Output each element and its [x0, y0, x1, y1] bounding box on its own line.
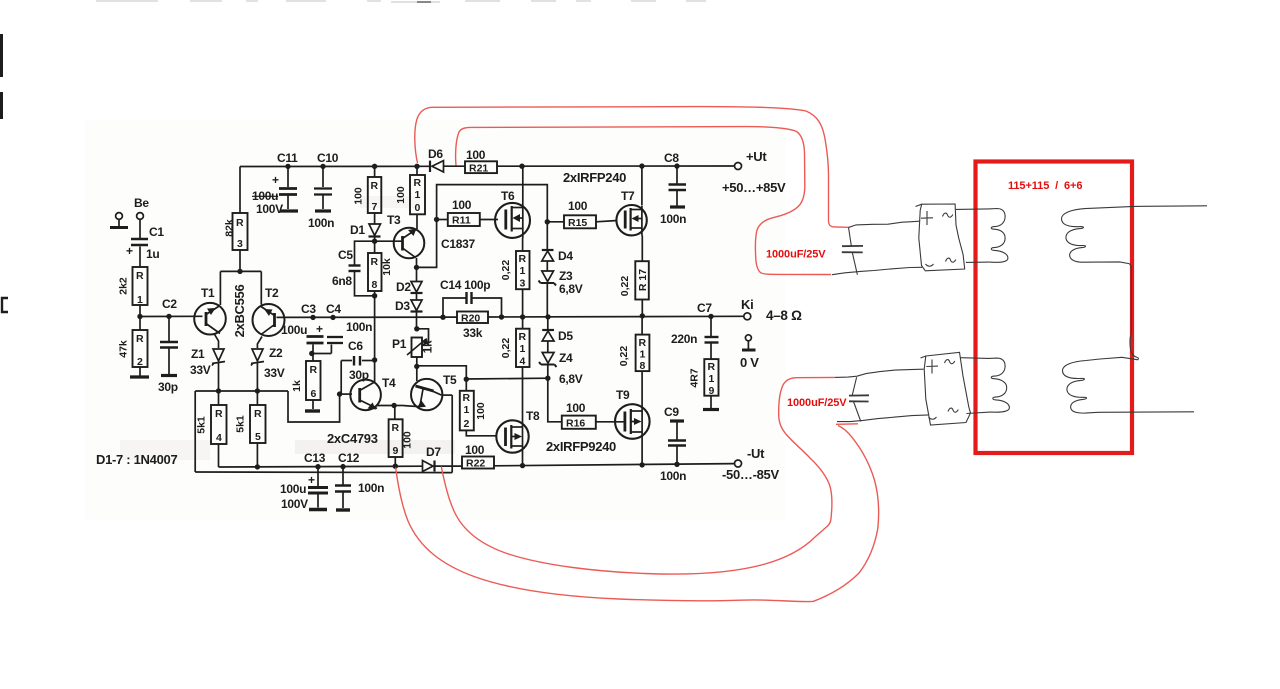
- svg-text:100u: 100u: [252, 189, 278, 203]
- resistor R5: [235, 405, 266, 443]
- wire collector row y391: [195, 390, 288, 392]
- wire frame bottom y472: [195, 471, 452, 474]
- svg-text:C12: C12: [338, 451, 360, 465]
- node T2 collector R5: [255, 388, 260, 393]
- node R17 R18 rail: [640, 313, 645, 318]
- transistor T2: [253, 304, 285, 336]
- wire R10 column: [416, 166, 418, 175]
- node C9 rail: [674, 462, 679, 467]
- svg-text:T2: T2: [265, 286, 279, 300]
- svg-text:-Ut: -Ut: [747, 446, 765, 461]
- capacitor upper 1000uF: [842, 245, 863, 247]
- resistor R14: [500, 329, 530, 368]
- svg-text:2xC4793: 2xC4793: [327, 431, 378, 446]
- svg-text:6,8V: 6,8V: [559, 282, 583, 296]
- svg-text:T8: T8: [526, 409, 540, 423]
- svg-text:+: +: [316, 322, 323, 336]
- wire secondary link hook: [1130, 337, 1138, 360]
- mosfet T7: [616, 205, 646, 236]
- svg-text:0,22: 0,22: [618, 346, 630, 367]
- terminal -Ut: [735, 460, 742, 467]
- svg-text:100: 100: [566, 401, 586, 415]
- svg-text:Z2: Z2: [269, 346, 283, 360]
- svg-text:R21: R21: [469, 162, 488, 174]
- wire upper AC bottom: [966, 261, 989, 263]
- svg-text:T7: T7: [621, 189, 635, 203]
- svg-text:C8: C8: [664, 151, 679, 165]
- wire C5 branch: [355, 241, 375, 264]
- svg-text:4: 4: [216, 432, 222, 444]
- svg-text:100n: 100n: [308, 216, 334, 230]
- svg-text:Ki: Ki: [741, 297, 753, 312]
- svg-text:1: 1: [464, 404, 470, 416]
- svg-text:R: R: [708, 361, 716, 373]
- wire T8 drain column: [522, 367, 524, 421]
- wire T5 collector: [442, 394, 453, 396]
- wire top supply rail: [240, 165, 429, 167]
- svg-text:1k: 1k: [421, 340, 435, 353]
- wire P1 wiper: [417, 329, 429, 345]
- svg-text:8: 8: [372, 279, 378, 291]
- capacitor C11: [287, 166, 289, 187]
- winding upper secondary: [1061, 206, 1134, 337]
- wire R17 column: [641, 236, 643, 262]
- svg-text:R: R: [371, 256, 379, 268]
- svg-text:C7: C7: [697, 301, 712, 315]
- node C12 rail: [340, 464, 345, 469]
- diode D2: [411, 282, 422, 293]
- diode D6: [432, 161, 444, 172]
- capacitor C9: [670, 419, 684, 422]
- svg-text:C4: C4: [326, 302, 341, 316]
- svg-text:R: R: [392, 422, 400, 434]
- svg-text:D1-7 : 1N4007: D1-7 : 1N4007: [96, 452, 177, 467]
- node P1 top: [414, 326, 419, 331]
- svg-text:Z3: Z3: [559, 269, 573, 283]
- svg-text:220n: 220n: [671, 332, 697, 346]
- capacitor C2: [160, 342, 178, 348]
- wire mid rail left: [140, 315, 203, 317]
- node T4 T5 emitters: [391, 403, 396, 408]
- node Z3 rail: [545, 314, 550, 319]
- rectifier bridge upper: [919, 204, 965, 271]
- svg-text:100: 100: [465, 443, 485, 457]
- svg-text:R11: R11: [452, 215, 471, 227]
- svg-text:C9: C9: [664, 405, 679, 419]
- wire upper AC top: [956, 208, 989, 211]
- node R10 D6 rail: [414, 164, 419, 169]
- svg-text:1u: 1u: [146, 247, 159, 261]
- svg-text:100: 100: [466, 148, 486, 162]
- winding lower secondary: [1062, 357, 1138, 413]
- wire lower cap top lead: [835, 369, 924, 377]
- svg-text:T9: T9: [616, 388, 630, 402]
- svg-text:D6: D6: [428, 147, 443, 161]
- svg-text:T4: T4: [382, 376, 396, 390]
- svg-text:R: R: [463, 392, 471, 404]
- wire R15 branch: [547, 221, 564, 223]
- mosfet T8: [496, 420, 528, 452]
- wire upper cap bottom lead: [832, 267, 922, 274]
- svg-text:33k: 33k: [463, 326, 483, 340]
- svg-text:D7: D7: [426, 445, 441, 459]
- svg-text:C5: C5: [338, 248, 353, 262]
- svg-text:1k: 1k: [291, 380, 303, 392]
- svg-text:2k2: 2k2: [118, 277, 130, 295]
- svg-text:8: 8: [640, 360, 646, 372]
- svg-text:100n: 100n: [358, 481, 384, 495]
- svg-text:R: R: [371, 180, 379, 192]
- svg-text:3: 3: [237, 238, 243, 250]
- transistor T4: [350, 380, 381, 411]
- svg-text:1: 1: [520, 265, 526, 277]
- wire T5 collector drop: [451, 395, 453, 473]
- node C2 junction: [166, 314, 171, 319]
- svg-text:82k: 82k: [224, 219, 236, 237]
- wire lower cap bottom lead: [837, 415, 929, 422]
- transistor T3: [375, 228, 425, 259]
- svg-text:100n: 100n: [660, 469, 686, 483]
- node R9 rail: [393, 464, 398, 469]
- svg-text:C13: C13: [304, 451, 326, 465]
- ground input: [110, 226, 128, 229]
- resistor R7: [353, 177, 382, 213]
- wire T3 emitter to R11: [417, 220, 437, 268]
- svg-text:0,22: 0,22: [500, 260, 512, 281]
- capacitor C12: [342, 467, 344, 485]
- diode D1: [369, 224, 381, 236]
- node R13 R14 rail: [520, 314, 525, 319]
- svg-text:100V: 100V: [256, 202, 283, 216]
- wire mid rail right: [488, 315, 744, 318]
- node T3 emitter: [414, 265, 419, 270]
- svg-text:C2: C2: [162, 297, 177, 311]
- svg-text:+: +: [308, 473, 315, 487]
- node D1 C5 R8: [372, 239, 377, 244]
- wire R8 bottom to C6: [374, 291, 376, 360]
- svg-text:100n: 100n: [346, 320, 372, 334]
- capacitor lower 1000uF: [849, 394, 869, 396]
- node T6 drain rail: [519, 164, 524, 169]
- svg-text:R: R: [639, 337, 647, 349]
- capacitor C1: [131, 239, 148, 245]
- node C4 rail: [330, 315, 335, 320]
- ground R19: [703, 408, 719, 411]
- node C3 bottom: [309, 351, 314, 356]
- svg-text:C11: C11: [277, 151, 298, 165]
- zener Z3: [542, 271, 554, 282]
- resistor R20: [457, 312, 488, 341]
- node R8 bottom: [372, 293, 377, 298]
- diode D5: [542, 329, 554, 331]
- resistor R9: [389, 419, 414, 457]
- node T9 source rail: [639, 462, 644, 467]
- svg-text:0,22: 0,22: [619, 276, 631, 297]
- wire T5 base: [416, 366, 418, 381]
- svg-text:+50…+85V: +50…+85V: [722, 180, 786, 195]
- svg-text:0,22: 0,22: [500, 338, 512, 359]
- wire red loop top outer: [415, 107, 849, 228]
- node emitter rail: [237, 269, 242, 274]
- node C14 left rail: [440, 315, 445, 320]
- wire R16 to T9 gate: [596, 421, 625, 423]
- resistor R10: [395, 175, 425, 214]
- resistor R1: [118, 267, 148, 306]
- wire R11 node to D4 top row: [437, 185, 548, 250]
- svg-text:10k: 10k: [381, 258, 393, 276]
- resistor R6: [291, 361, 321, 400]
- node C11 rail: [285, 164, 290, 169]
- node R15 tap: [545, 219, 550, 224]
- resistor R21: [465, 148, 497, 174]
- svg-text:33V: 33V: [264, 366, 285, 380]
- terminal Ki: [744, 313, 751, 320]
- svg-text:100: 100: [353, 187, 365, 205]
- resistor R17: [619, 261, 649, 299]
- svg-text:3: 3: [520, 278, 526, 290]
- node T8 source rail: [520, 463, 525, 468]
- svg-text:C1: C1: [149, 225, 164, 239]
- svg-text:R: R: [414, 177, 422, 189]
- svg-text:100n: 100n: [660, 212, 686, 226]
- terminal 0V: [745, 335, 751, 341]
- wire upper cap top lead: [849, 221, 920, 227]
- ground R2: [130, 375, 149, 378]
- svg-text:+: +: [126, 244, 133, 258]
- svg-text:9: 9: [393, 445, 399, 457]
- left page-edge bars: [0, 34, 3, 77]
- svg-text:T5: T5: [443, 373, 457, 387]
- svg-text:R22: R22: [466, 458, 485, 470]
- wire R6 ground stub: [312, 400, 314, 409]
- svg-text:2xBC556: 2xBC556: [232, 285, 247, 338]
- node C7 rail: [708, 314, 713, 319]
- svg-text:5: 5: [255, 431, 261, 443]
- svg-text:R: R: [519, 331, 527, 343]
- resistor R11: [448, 198, 480, 227]
- wire R14 column: [522, 317, 524, 329]
- wire C3 C4 bottom join: [312, 345, 314, 354]
- svg-text:R: R: [310, 364, 318, 376]
- svg-text:P1: P1: [392, 337, 407, 351]
- wire D5 Z4 column: [547, 317, 549, 330]
- capacitor C14: [467, 292, 472, 304]
- svg-text:0: 0: [415, 202, 421, 214]
- svg-text:-50…-85V: -50…-85V: [722, 467, 779, 482]
- svg-text:2xIRFP9240: 2xIRFP9240: [546, 439, 616, 454]
- svg-text:1: 1: [415, 189, 421, 201]
- svg-text:1: 1: [709, 373, 715, 385]
- svg-text:100V: 100V: [281, 497, 308, 511]
- wire lower secondary external lead: [1098, 411, 1194, 414]
- node C13 rail: [315, 464, 320, 469]
- resistor R18: [618, 335, 649, 372]
- wire C6 to T4 collector: [374, 360, 376, 382]
- svg-text:C1837: C1837: [441, 237, 475, 251]
- wire R3 feed: [239, 167, 241, 214]
- svg-text:T1: T1: [201, 286, 215, 300]
- svg-text:D2: D2: [396, 280, 411, 294]
- node R4 rail: [255, 464, 260, 469]
- svg-text:Z1: Z1: [191, 347, 205, 361]
- diode D3: [411, 300, 422, 311]
- resistor R22: [462, 443, 494, 470]
- svg-text:1000uF/25V: 1000uF/25V: [766, 249, 826, 261]
- mosfet T6: [495, 203, 530, 238]
- wire T2 collector / Z2 column: [257, 337, 262, 349]
- svg-text:T3: T3: [387, 213, 401, 227]
- diode D7: [423, 461, 434, 472]
- svg-text:C14 100p: C14 100p: [440, 278, 490, 292]
- svg-text:2xIRFP240: 2xIRFP240: [563, 170, 626, 185]
- mosfet T9: [615, 404, 650, 439]
- resistor R12: [460, 391, 487, 431]
- wire lower AC bottom: [967, 412, 991, 413]
- node T4 base: [337, 391, 342, 396]
- top page-edge artifacts: [96, 1, 706, 2]
- wire red hook dash: [836, 423, 858, 426]
- svg-text:C10: C10: [317, 151, 339, 165]
- trimmer P1: [407, 338, 426, 358]
- wire T4 base: [340, 393, 352, 395]
- node C10 rail: [320, 164, 325, 169]
- svg-text:1: 1: [137, 294, 143, 306]
- node R1 R2 junction: [137, 314, 142, 319]
- wire mid rail center: [277, 316, 458, 318]
- svg-text:4–8 Ω: 4–8 Ω: [766, 308, 802, 323]
- svg-text:4: 4: [520, 356, 526, 368]
- wire T6 drain: [522, 166, 524, 203]
- zener Z1: [212, 349, 225, 366]
- wire C2 branch: [168, 316, 170, 341]
- wire red loop top inner: [456, 127, 831, 275]
- wire R18 column: [641, 316, 643, 335]
- svg-text:D4: D4: [558, 249, 573, 263]
- wire R7 column: [374, 166, 376, 177]
- wire T4 T5 emitter row: [377, 405, 394, 407]
- svg-text:R: R: [136, 270, 144, 282]
- svg-text:5k1: 5k1: [196, 416, 208, 434]
- capacitor C8: [676, 166, 678, 183]
- rectifier bridge lower: [924, 352, 970, 425]
- svg-text:R: R: [136, 333, 144, 345]
- terminal +Ut: [735, 163, 742, 170]
- svg-text:R: R: [254, 408, 262, 420]
- svg-text:D3: D3: [395, 299, 410, 313]
- svg-text:R 17: R 17: [637, 269, 649, 291]
- svg-text:5k1: 5k1: [235, 415, 247, 433]
- resistor R19: [689, 359, 719, 397]
- node C6 right: [372, 357, 377, 362]
- capacitor C7: [710, 316, 712, 336]
- svg-text:115+115 / 6+6: 115+115 / 6+6: [1008, 180, 1082, 192]
- node R12 top: [464, 377, 469, 382]
- svg-text:1: 1: [640, 349, 646, 361]
- wire red loop bottom outer: [396, 426, 879, 602]
- wire P1 bottom node row: [416, 357, 418, 366]
- node T1 collector R4: [216, 388, 221, 393]
- resistor R13: [500, 251, 530, 290]
- zener Z2: [251, 349, 264, 366]
- wire upper secondary external lead: [1134, 205, 1207, 208]
- node Z4 row: [545, 376, 550, 381]
- resistor R8: [368, 253, 393, 291]
- svg-text:T6: T6: [501, 189, 515, 203]
- wire C6 left: [341, 360, 352, 362]
- wire R9 column: [394, 406, 396, 420]
- left bracket mark: [2, 298, 8, 312]
- node R11 left: [434, 217, 439, 222]
- wire T3 emitter column D2 D3: [416, 258, 418, 281]
- svg-text:Be: Be: [134, 196, 149, 210]
- svg-text:6n8: 6n8: [332, 274, 352, 288]
- wire C14 left: [443, 298, 466, 317]
- transistor T1: [194, 303, 226, 335]
- wire T1 collector / Z1 column: [214, 334, 219, 349]
- wire R11 to T6 gate: [480, 219, 498, 221]
- winding upper primary: [989, 209, 1008, 263]
- svg-text:9: 9: [709, 385, 715, 397]
- resistor R16: [562, 401, 596, 429]
- svg-text:+Ut: +Ut: [746, 149, 767, 164]
- scan paper tint: [85, 120, 785, 520]
- node C3 rail: [310, 315, 315, 320]
- svg-text:6,8V: 6,8V: [559, 372, 583, 386]
- svg-text:R16: R16: [566, 417, 585, 429]
- capacitor C4: [327, 337, 343, 343]
- wire red loop bottom inner: [441, 377, 835, 574]
- wire Z4 to R16: [548, 378, 562, 422]
- svg-text:R20: R20: [461, 313, 480, 325]
- svg-text:47k: 47k: [118, 340, 130, 358]
- svg-text:+: +: [272, 173, 279, 187]
- capacitor C13: [317, 467, 319, 486]
- winding lower primary: [989, 358, 1010, 412]
- diode D4: [542, 249, 554, 251]
- wire emitter rail T1 T2: [220, 270, 261, 272]
- ground R6: [305, 409, 320, 412]
- power transformer outline: [976, 162, 1133, 454]
- resistor R3: [224, 213, 248, 250]
- svg-text:100: 100: [395, 186, 407, 204]
- resistor R2: [118, 330, 148, 368]
- svg-text:4R7: 4R7: [689, 368, 701, 387]
- wire C14 right: [472, 298, 502, 317]
- svg-text:1000uF/25V: 1000uF/25V: [787, 397, 847, 409]
- svg-text:2: 2: [464, 418, 470, 430]
- svg-text:D1: D1: [350, 223, 365, 237]
- terminal Be input: [116, 213, 144, 226]
- svg-text:30p: 30p: [158, 380, 178, 394]
- wire R12 column: [465, 379, 467, 391]
- wire left frame vertical: [194, 391, 196, 472]
- resistor R15: [564, 199, 596, 229]
- svg-text:C6: C6: [348, 339, 363, 353]
- wire gate row y378.7: [466, 377, 548, 380]
- svg-text:R: R: [236, 217, 244, 229]
- wire R13 column: [522, 238, 524, 251]
- svg-text:100: 100: [568, 199, 588, 213]
- capacitor C5: [349, 266, 361, 272]
- transistor T5: [404, 379, 442, 410]
- svg-text:R15: R15: [568, 217, 587, 229]
- node R7 rail: [372, 164, 377, 169]
- svg-text:100: 100: [475, 402, 487, 420]
- wire T9 source: [641, 439, 643, 465]
- svg-text:2: 2: [137, 356, 143, 368]
- svg-text:D5: D5: [558, 329, 573, 343]
- svg-text:Z4: Z4: [559, 351, 573, 365]
